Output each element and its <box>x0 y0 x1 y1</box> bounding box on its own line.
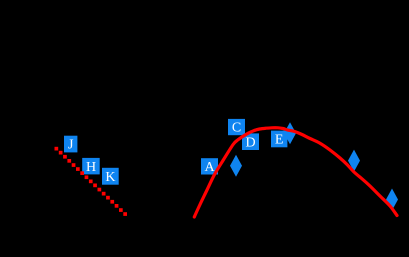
label box C <box>228 119 245 136</box>
diamond marker 4 <box>386 189 398 211</box>
svg-text:E: E <box>275 133 284 148</box>
svg-text:H: H <box>86 160 96 175</box>
svg-text:C: C <box>232 121 241 136</box>
label box J <box>64 136 77 153</box>
svg-text:J: J <box>68 138 74 153</box>
svg-text:K: K <box>105 170 115 185</box>
dotted red line <box>55 147 128 216</box>
label box D <box>242 133 259 150</box>
label box A <box>201 158 218 175</box>
label box E <box>271 131 287 148</box>
diamond marker 2 <box>284 122 296 144</box>
svg-text:D: D <box>245 135 255 150</box>
label box K <box>102 168 119 185</box>
diamond marker 3 <box>348 150 360 172</box>
red fitted curve <box>194 128 397 217</box>
diamond marker 1 <box>230 155 242 177</box>
label box H <box>82 158 100 175</box>
